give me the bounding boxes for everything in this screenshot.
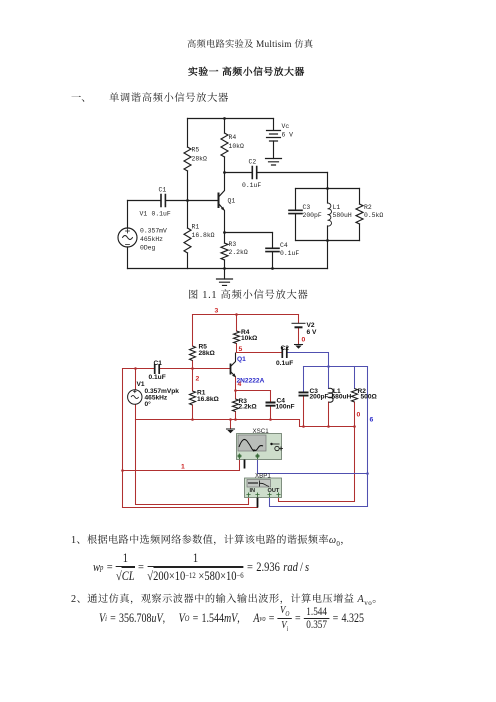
wire net0 to XBP in+ xyxy=(136,420,249,505)
capacitor C4 xyxy=(266,403,276,406)
svg-text:465kHz: 465kHz xyxy=(140,236,163,243)
node collector xyxy=(223,171,226,174)
svg-text:0.357mV: 0.357mV xyxy=(140,228,167,235)
svg-text:C3: C3 xyxy=(303,204,311,211)
capacitor C1 xyxy=(161,195,165,207)
svg-text:1: 1 xyxy=(181,464,185,471)
node R3/bottom rail xyxy=(223,267,226,270)
svg-text:R3: R3 xyxy=(229,241,237,248)
svg-text:500Ω: 500Ω xyxy=(361,394,378,401)
svg-text:28kΩ: 28kΩ xyxy=(192,156,208,163)
node Vcc/R4 junction xyxy=(223,117,226,120)
svg-text:200pF: 200pF xyxy=(310,394,329,401)
svg-text:C2: C2 xyxy=(249,159,257,166)
svg-text:2: 2 xyxy=(196,376,200,383)
svg-text:0.1uF: 0.1uF xyxy=(149,374,166,381)
wire R4 leads xyxy=(236,315,238,353)
ground symbol left xyxy=(227,428,235,430)
wire collector xyxy=(225,172,252,174)
paragraph 2 xyxy=(71,593,383,607)
wire L1 bottom lead xyxy=(328,402,330,427)
wire tank top net 6 xyxy=(304,366,368,368)
wire C3 top lead xyxy=(303,367,305,393)
node R2/tank bottom xyxy=(353,425,356,428)
ground below Vc xyxy=(266,159,282,166)
wire L1 top lead xyxy=(328,367,330,389)
wire R1 leads xyxy=(192,369,194,420)
svg-text:R1: R1 xyxy=(192,224,200,231)
title xyxy=(188,67,305,77)
wire ground stub scope xyxy=(230,420,232,430)
node base junction xyxy=(186,199,189,202)
svg-text:OUT: OUT xyxy=(268,488,280,494)
node gnd stub junction xyxy=(229,418,232,421)
ground symbol V2 xyxy=(295,344,303,346)
wire emitter net 4 xyxy=(236,377,271,420)
capacitor C4 xyxy=(272,233,274,249)
wire base xyxy=(166,200,218,202)
svg-text:C1: C1 xyxy=(159,187,167,194)
svg-text:0°: 0° xyxy=(145,400,152,408)
battery Vc xyxy=(273,119,275,131)
svg-text:6 V: 6 V xyxy=(282,132,294,139)
svg-text:0: 0 xyxy=(357,412,361,419)
node rail/R4 junction xyxy=(235,313,238,316)
paragraph 1 xyxy=(71,534,351,548)
wire R2 top lead xyxy=(354,367,356,389)
svg-text:0.1uF: 0.1uF xyxy=(276,360,293,367)
svg-text:C4: C4 xyxy=(280,242,288,249)
wire net1 to XBP in- xyxy=(123,498,258,508)
node V1 top junction xyxy=(134,367,137,370)
svg-text:580uH: 580uH xyxy=(332,394,352,401)
resistor R3 xyxy=(224,233,226,269)
transistor Q1 xyxy=(218,194,220,208)
svg-text:28kΩ: 28kΩ xyxy=(199,350,216,357)
svg-text:C1: C1 xyxy=(154,360,163,367)
inductor L1 xyxy=(328,203,332,226)
resistor R2 body xyxy=(352,389,358,403)
wire Vcc top rail xyxy=(188,118,274,120)
svg-text:100nF: 100nF xyxy=(276,403,295,410)
svg-text:C2: C2 xyxy=(281,345,290,352)
svg-text:10kΩ: 10kΩ xyxy=(241,335,258,342)
svg-text:2N2222A: 2N2222A xyxy=(237,378,265,385)
svg-text:V1: V1 xyxy=(140,211,148,218)
wire collector net 5 xyxy=(237,352,282,354)
svg-text:0: 0 xyxy=(302,337,306,344)
svg-text:6 V: 6 V xyxy=(307,329,317,336)
source V1 xyxy=(128,390,142,404)
transistor Q1 xyxy=(230,364,232,375)
resistor R1 xyxy=(187,201,189,269)
node emitter junction xyxy=(234,389,237,392)
svg-text:580uH: 580uH xyxy=(333,212,352,219)
svg-text:6: 6 xyxy=(370,417,374,424)
node net1 tee xyxy=(121,469,124,472)
svg-text:0.1uF: 0.1uF xyxy=(280,250,299,257)
svg-text:2.2kΩ: 2.2kΩ xyxy=(239,404,258,411)
wire C3 bottom lead xyxy=(303,396,305,427)
svg-text:XSC1: XSC1 xyxy=(253,428,270,435)
resistor R4 body xyxy=(234,331,240,344)
capacitor C3 xyxy=(299,392,309,395)
svg-text:200pF: 200pF xyxy=(303,212,322,219)
capacitor C2 xyxy=(252,167,256,179)
node base/R5R1 junction xyxy=(191,367,194,370)
caption fig 1.1 xyxy=(188,289,309,299)
resistor R3 body xyxy=(233,399,239,412)
wire output vertical xyxy=(327,173,329,269)
node emitter junction xyxy=(223,231,226,234)
svg-text:16.8kΩ: 16.8kΩ xyxy=(192,232,215,239)
node C4/bottom rail xyxy=(271,267,274,270)
resistor R5 body xyxy=(190,346,196,361)
wire C2 to tank blue xyxy=(288,353,329,367)
wire scope B xyxy=(258,460,368,474)
svg-text:10kΩ: 10kΩ xyxy=(229,143,245,150)
resistor R1 body xyxy=(190,391,196,405)
capacitor C2 xyxy=(282,347,287,358)
header line xyxy=(187,39,313,50)
resistor R5 xyxy=(187,119,189,201)
node C2 feed/tank top xyxy=(327,365,330,368)
svg-text:0Deg: 0Deg xyxy=(140,245,156,252)
wire tank top xyxy=(296,188,360,190)
wire ground rail net 0 xyxy=(136,420,355,427)
node R1/gnd rail xyxy=(191,418,194,421)
svg-text:L1: L1 xyxy=(333,204,341,211)
node scopeB/net6 tee xyxy=(366,472,369,475)
formula omega xyxy=(93,553,309,582)
svg-text:Vc: Vc xyxy=(282,123,290,130)
svg-text:2.2kΩ: 2.2kΩ xyxy=(229,249,248,256)
wire emitter to C4 xyxy=(225,232,273,234)
oscilloscope XSC1 xyxy=(237,434,284,469)
svg-text:R4: R4 xyxy=(229,134,237,141)
wire C2 to tank xyxy=(258,172,328,174)
wire Vcc rail net 3 xyxy=(193,314,299,316)
ground below R3 xyxy=(224,269,226,280)
capacitor C1 xyxy=(155,364,160,374)
svg-text:5: 5 xyxy=(239,346,243,353)
wire R2 bottom to XBP out+ xyxy=(279,402,355,502)
bode plotter XBP1 xyxy=(245,478,282,508)
wire to XBP out- xyxy=(270,498,368,507)
svg-text:R5: R5 xyxy=(192,147,200,154)
node tank top junction xyxy=(326,187,329,190)
formula gain xyxy=(99,605,364,632)
wire right vertical net 6 xyxy=(367,367,369,507)
node C4/gnd rail xyxy=(269,418,272,421)
node L1/tank bottom xyxy=(327,425,330,428)
resistor R2 xyxy=(359,189,361,241)
wire V1 leads xyxy=(135,369,137,420)
svg-text:XBP1: XBP1 xyxy=(255,473,271,480)
capacitor C3 xyxy=(295,189,297,211)
node C3/tank bottom xyxy=(302,425,305,428)
svg-text:V1: V1 xyxy=(137,381,145,388)
inductor L1 body xyxy=(329,388,334,402)
wire tank bottom xyxy=(296,240,360,242)
section heading xyxy=(71,92,92,102)
wire base net 2 xyxy=(123,368,230,370)
svg-text:IN: IN xyxy=(250,488,256,494)
node R3/gnd rail xyxy=(234,418,237,421)
source V1 xyxy=(118,228,137,247)
svg-text:0.1uF: 0.1uF xyxy=(152,211,171,218)
wire V2 lead xyxy=(298,315,300,324)
wire net1 scope A xyxy=(123,369,240,508)
svg-text:0.5kΩ: 0.5kΩ xyxy=(364,212,383,219)
svg-text:3: 3 xyxy=(215,308,219,315)
resistor R4 xyxy=(224,119,226,173)
svg-text:16.8kΩ: 16.8kΩ xyxy=(197,396,220,403)
node tank bottom junction xyxy=(326,239,329,242)
wire R5 leads xyxy=(192,315,194,369)
battery V2 xyxy=(292,322,306,324)
svg-text:0.1uF: 0.1uF xyxy=(242,182,261,189)
wire C4 leads xyxy=(270,391,272,420)
svg-text:R2: R2 xyxy=(364,204,372,211)
svg-text:Q1: Q1 xyxy=(228,198,236,205)
svg-text:Q1: Q1 xyxy=(237,356,246,363)
wire bottom rail xyxy=(128,268,328,270)
